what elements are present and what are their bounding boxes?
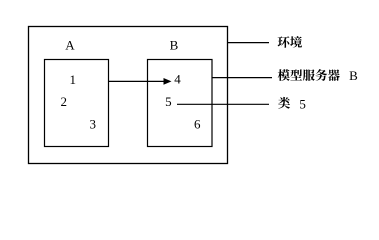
svg-text:1: 1 — [69, 72, 76, 87]
wire: leader to label class 5 — [177, 103, 269, 105]
wire: arrow from box A to node 4 — [109, 78, 172, 85]
label: model server (mo xing fu wu qi) — [278, 69, 340, 81]
outer box: environment — [29, 27, 228, 164]
box A: model server A — [45, 60, 109, 147]
svg-text:B: B — [170, 38, 179, 53]
wire: leader to label huanjing — [228, 42, 270, 44]
svg-text:3: 3 — [89, 117, 96, 132]
svg-text:6: 6 — [194, 116, 201, 131]
svg-text:4: 4 — [174, 72, 181, 87]
svg-text:5: 5 — [165, 94, 172, 109]
wire: leader to label model server B — [212, 77, 272, 79]
svg-text:A: A — [65, 38, 75, 53]
label: environment (huan jing) — [278, 36, 302, 48]
svg-text:5: 5 — [299, 96, 306, 111]
label: class (lei) — [278, 97, 290, 109]
svg-text:B: B — [349, 68, 358, 83]
svg-text:2: 2 — [60, 94, 67, 109]
box B: model server B — [148, 60, 213, 147]
